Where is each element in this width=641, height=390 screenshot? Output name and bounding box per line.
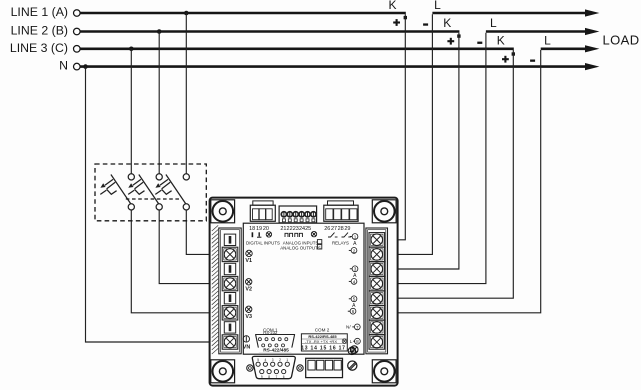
label VN terminal circled [243, 336, 251, 351]
label - of CT3 [530, 60, 535, 62]
glyph digital input 18 [251, 232, 253, 237]
label - of CT2 [477, 42, 482, 44]
jumper box 1 [317, 240, 321, 244]
label V3 terminal circled [245, 306, 252, 320]
meter top connector analog [279, 206, 317, 223]
wire LINE3 tap to breaker 1 [130, 49, 132, 174]
COM1 D-sub external [252, 356, 295, 378]
svg-text:K: K [388, 0, 396, 12]
meter corner hole top-right [372, 200, 396, 223]
svg-text:3: 3 [354, 267, 357, 272]
terminal circle neutral [74, 63, 81, 70]
svg-text:4: 4 [353, 279, 356, 284]
node junction dot on LINE2 [157, 29, 162, 34]
node junction dot on LINE3 [129, 47, 134, 52]
svg-text:LINE 3 (C): LINE 3 (C) [10, 41, 68, 55]
label terminal 1 circled [350, 234, 358, 240]
arrow neutral to load [585, 63, 599, 70]
svg-text:8: 8 [356, 339, 359, 344]
label RS-422/485 [258, 348, 295, 354]
wire LINE3 segment K-side [80, 47, 514, 50]
svg-text:8: 8 [268, 375, 270, 379]
wire CT1 S2 to meter terminal 2 [383, 14, 432, 254]
svg-text:1: 1 [354, 234, 357, 239]
meter top connector digital [250, 201, 275, 221]
breaker mechanical linkage dashed [126, 198, 182, 200]
breaker fuse pole 3 [155, 174, 189, 210]
wire CT2 S1 to meter terminal 3 [383, 33, 459, 269]
meter inner rear panel [243, 223, 364, 354]
fuse box dashed enclosure [95, 164, 206, 221]
svg-text:N: N [59, 59, 68, 73]
meter corner hole top-left [211, 200, 235, 223]
svg-text:3: 3 [272, 358, 274, 362]
svg-text:5: 5 [353, 297, 356, 302]
svg-text:4: 4 [265, 358, 267, 362]
wire CT3 S1 to meter terminal 5 [383, 50, 513, 298]
terminal circle line 1 [74, 10, 81, 17]
meter left clamp hatching [212, 225, 218, 354]
svg-text:19: 19 [256, 226, 262, 232]
svg-text:L: L [544, 33, 551, 47]
wire neutral line [80, 65, 587, 68]
svg-text:18: 18 [249, 226, 255, 232]
svg-text:2: 2 [279, 358, 281, 362]
svg-text:VN: VN [243, 344, 251, 350]
terminal numbers relays [324, 226, 350, 232]
svg-text:-TX -RX +TX +RX: -TX -RX +TX +RX [305, 339, 337, 344]
svg-text:K: K [443, 16, 451, 30]
svg-text:20: 20 [263, 226, 269, 232]
COM1 D-sub internal [256, 335, 295, 352]
svg-text:29: 29 [344, 226, 350, 232]
wire breaker2 output to meter V2 terminal [159, 210, 228, 284]
arrow LINE3 to load [585, 45, 599, 52]
label terminal 4 circled [349, 279, 357, 285]
svg-text:25: 25 [305, 226, 311, 232]
svg-text:K: K [497, 33, 505, 47]
glyph relay contact 28-29 [342, 233, 352, 237]
glyph relay contact 26-27 [328, 233, 338, 237]
wire LINE1 segment L-side [432, 12, 586, 15]
svg-text:L: L [434, 0, 441, 12]
wire LINE1 segment K-side [80, 12, 406, 15]
screw earth right [350, 346, 358, 354]
svg-text:1: 1 [286, 358, 288, 362]
meter corner hole bottom-right [372, 360, 396, 383]
label terminal 2 circled [349, 248, 357, 254]
glyph analog input pair 23-24 [295, 233, 303, 237]
sealing screw [348, 361, 357, 370]
pin numbers bottom row [261, 375, 285, 379]
COM2 terminal table [301, 334, 347, 352]
label + of CT3 [502, 56, 509, 63]
svg-text:V1: V1 [245, 258, 252, 264]
glyph analog input pair 21-22 [285, 233, 293, 237]
svg-text:RELAYS: RELAYS [332, 241, 349, 246]
svg-text:6: 6 [352, 309, 355, 314]
label terminal 6 circled [348, 308, 356, 314]
glyph digital input 20 common [266, 232, 271, 237]
svg-text:V2: V2 [245, 286, 252, 292]
label + of CT1 [393, 19, 400, 26]
svg-text:DIGITAL INPUTS: DIGITAL INPUTS [246, 241, 280, 246]
arrow LINE2 to load [585, 28, 599, 35]
screw earth bottom [348, 347, 355, 354]
svg-text:V3: V3 [245, 314, 252, 320]
wire CT2 S2 to meter terminal 4 [383, 33, 486, 284]
svg-text:6: 6 [283, 375, 285, 379]
meter left terminal cells [222, 234, 238, 349]
svg-text:13 14 15 16 17: 13 14 15 16 17 [301, 346, 346, 352]
node CT3 S1 dot [512, 52, 515, 55]
svg-text:5: 5 [257, 358, 259, 362]
terminal circle line 3 [74, 46, 81, 53]
svg-text:26: 26 [324, 226, 330, 232]
svg-text:LOAD: LOAD [603, 33, 640, 48]
svg-text:L: L [490, 16, 497, 30]
terminal circle line 2 [74, 28, 81, 35]
label terminal 5 circled [349, 296, 357, 302]
node CT2 S1 dot [457, 34, 460, 37]
meter left terminal strip [219, 228, 241, 354]
meter outer case [210, 198, 398, 386]
breaker fuse pole 2 [128, 174, 162, 210]
terminal numbers digital [249, 226, 269, 232]
svg-text:9: 9 [261, 375, 263, 379]
meter right terminal strip [366, 228, 388, 354]
svg-text:28: 28 [338, 226, 344, 232]
label neutral terminal circled [346, 324, 360, 330]
glyph analog common 25 [311, 231, 316, 236]
wire CT1 S1 to meter terminal 1 [383, 14, 405, 240]
meter top connector relays [324, 201, 358, 221]
terminal numbers analog [280, 226, 311, 232]
svg-text:7: 7 [356, 325, 359, 330]
COM2 terminal block external [306, 358, 343, 377]
label + of CT2 [447, 38, 454, 45]
svg-text:2: 2 [353, 248, 356, 253]
label - of CT1 [423, 23, 428, 25]
svg-text:RS-422/485: RS-422/485 [263, 348, 289, 354]
svg-text:N/: N/ [346, 325, 351, 330]
wire LINE2 tap to breaker 2 [158, 32, 160, 175]
svg-text:7: 7 [276, 375, 278, 379]
svg-text:COM 2: COM 2 [315, 328, 330, 333]
meter corner hole bottom-left [211, 360, 235, 383]
label V2 terminal circled [245, 279, 252, 293]
wire LINE2 segment L-side [486, 30, 587, 33]
node junction dot on LINE1 [184, 11, 189, 16]
wire breaker1 output to meter V3 terminal [131, 210, 228, 313]
svg-text:22: 22 [287, 226, 293, 232]
wire LINE3 segment L-side [541, 47, 587, 50]
hex screw right [297, 365, 303, 371]
svg-text:LINE 1 (A): LINE 1 (A) [11, 5, 68, 19]
label V1 terminal circled [245, 250, 252, 264]
svg-text:ANALOG OUTPUTS: ANALOG OUTPUTS [280, 246, 321, 251]
jumper box 2 [317, 245, 321, 249]
svg-text:21: 21 [280, 226, 286, 232]
wire LINE1 tap to breaker 3 [185, 13, 187, 174]
svg-text:L: L [350, 339, 353, 344]
hex screw left [247, 365, 253, 371]
glyph digital input 19 [257, 232, 261, 237]
svg-text:LINE 2 (B): LINE 2 (B) [11, 24, 68, 38]
wire neutral tap to meter VN terminal [86, 67, 229, 342]
wire LINE2 segment K-side [80, 30, 460, 33]
meter right terminal cells [369, 233, 385, 350]
breaker fuse pole 1 [100, 174, 134, 210]
arrow LINE1 to load [585, 9, 599, 16]
label terminal 3 circled [350, 266, 358, 272]
wire breaker3 output to meter V1 terminal [186, 210, 228, 255]
node junction dot on neutral [83, 64, 88, 69]
svg-text:23: 23 [293, 226, 299, 232]
node CT1 S1 dot [404, 16, 407, 19]
wire CT3 S2 to meter terminal 6 [383, 50, 541, 313]
pin numbers top row [257, 358, 288, 362]
label aux terminal circled [350, 338, 361, 344]
svg-text:27: 27 [331, 226, 337, 232]
